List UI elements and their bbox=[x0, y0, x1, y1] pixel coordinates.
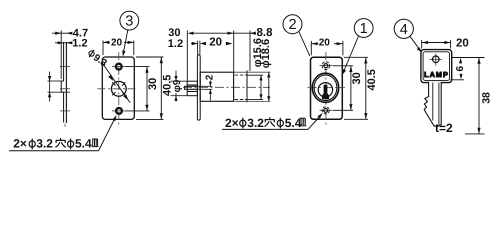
plate section back face line bbox=[65, 42, 67, 123]
phi symbol label2 b bbox=[277, 118, 283, 129]
svg-text:φ18.6: φ18.6 bbox=[260, 39, 272, 68]
balloon 2 bbox=[283, 15, 302, 34]
phi9 dimension left of flange bbox=[171, 71, 188, 102]
flange plate edge-on bbox=[197, 55, 200, 120]
svg-text:1.2: 1.2 bbox=[168, 38, 183, 50]
svg-text:30: 30 bbox=[351, 72, 363, 84]
dimension 20 above front plate bbox=[311, 41, 343, 55]
svg-text:φ9: φ9 bbox=[172, 79, 183, 92]
center ticks on plate section bbox=[60, 67, 70, 111]
keyway bbox=[322, 85, 329, 100]
dimension 20 above view 3 bbox=[103, 41, 134, 56]
vertical centerline bbox=[325, 52, 327, 125]
horizontal centerline bbox=[183, 86, 270, 88]
svg-text:1: 1 bbox=[360, 21, 368, 37]
svg-text:20: 20 bbox=[319, 37, 331, 48]
horizontal centerline of big hole bbox=[98, 88, 139, 90]
svg-text:2×: 2× bbox=[225, 116, 239, 130]
cam bar edge-on bbox=[185, 86, 198, 89]
lock body rectangle bbox=[200, 72, 233, 101]
phi symbol label2 a bbox=[240, 118, 246, 129]
bottom countersunk hole bbox=[112, 108, 126, 114]
cam latch boss on flange front bbox=[187, 81, 197, 96]
bottom hole (back side) bbox=[320, 107, 333, 114]
svg-text:1.2: 1.2 bbox=[72, 38, 87, 50]
kanji sara label2 bbox=[299, 118, 306, 126]
svg-text:4: 4 bbox=[400, 22, 408, 38]
svg-text:20: 20 bbox=[111, 37, 123, 48]
label text 2 bbox=[225, 116, 302, 130]
big hole phi9.3 circle with ticks bbox=[111, 81, 126, 96]
kanji ana (hole) bbox=[55, 138, 65, 147]
dimension 20 above key bbox=[422, 40, 451, 49]
balloon 1 leader with arrow bbox=[342, 36, 359, 75]
balloon 3 bbox=[120, 11, 139, 30]
phi9.3 text bbox=[86, 48, 110, 69]
hub height dimension (left small dim) bbox=[48, 72, 71, 102]
svg-text:2: 2 bbox=[205, 74, 216, 80]
svg-text:2: 2 bbox=[288, 17, 296, 33]
svg-text:40.5: 40.5 bbox=[366, 69, 378, 90]
top hole (back side) bbox=[320, 62, 333, 70]
dimension 1.2 bbox=[55, 41, 72, 44]
key head inner outline bbox=[423, 52, 449, 81]
svg-text:3.2: 3.2 bbox=[247, 116, 264, 130]
hub boss on plate section bbox=[61, 81, 63, 92]
phi symbol 2 bbox=[68, 139, 74, 150]
dimension 6 (key) bbox=[451, 58, 471, 80]
svg-text:3: 3 bbox=[125, 14, 133, 30]
top countersunk hole bbox=[112, 64, 126, 70]
dimension 30 top (view 2) bbox=[187, 31, 233, 82]
dimension 30 right of view 3 bbox=[126, 67, 150, 111]
label 1 underline and leader bbox=[9, 115, 116, 151]
label text 1: 2x phi3.2 hole phi5.4 countersink bbox=[13, 137, 92, 151]
lock cylinder circles bbox=[312, 73, 338, 102]
hidden lines phi15.6 bbox=[235, 74, 249, 76]
balloon 3 leader bbox=[122, 30, 128, 57]
key blade bbox=[424, 82, 441, 126]
dimension 8.8 top (view 2) bbox=[234, 31, 256, 72]
svg-text:8.8: 8.8 bbox=[257, 27, 274, 39]
dimension 30 right of front plate bbox=[333, 66, 353, 111]
vertical centerline of plate bbox=[118, 52, 120, 126]
blade groove lines bbox=[432, 83, 434, 121]
svg-text:30: 30 bbox=[147, 78, 159, 90]
phi9.3 leader with arrows bbox=[102, 62, 131, 103]
svg-text:2×: 2× bbox=[13, 137, 27, 151]
dimension 4.7 bbox=[52, 31, 72, 80]
plate section front face line bbox=[63, 42, 65, 81]
dimension 38 (key) bbox=[452, 58, 485, 134]
balloon 4 bbox=[394, 19, 413, 38]
svg-text:LAMP: LAMP bbox=[424, 70, 449, 79]
balloon 1 bbox=[354, 19, 373, 38]
phi15.6 dimension bbox=[247, 75, 263, 99]
svg-text:3.2: 3.2 bbox=[36, 137, 53, 151]
svg-text:20: 20 bbox=[209, 37, 222, 49]
balloon 2 leader bbox=[299, 31, 310, 56]
view 3 front plate outline bbox=[102, 57, 134, 119]
kanji ana (hole) label2 bbox=[265, 117, 275, 126]
svg-text:5.4: 5.4 bbox=[285, 116, 302, 130]
dimension 1.2 and 20 (view 2 second row) bbox=[191, 41, 233, 55]
dimension 40.5 right of view 3 bbox=[136, 57, 164, 119]
svg-text:38: 38 bbox=[480, 92, 492, 104]
front plate outline bbox=[311, 57, 343, 119]
svg-text:6: 6 bbox=[455, 66, 466, 72]
svg-text:t=2: t=2 bbox=[435, 121, 453, 135]
svg-text:20: 20 bbox=[456, 37, 469, 49]
kanji sara (dish/countersink) bbox=[92, 139, 99, 147]
rear stub top and bottom edges bbox=[234, 71, 247, 73]
phi18.6 dimension bbox=[236, 72, 271, 101]
svg-text:5.4: 5.4 bbox=[75, 137, 92, 151]
balloon 4 leader bbox=[410, 36, 422, 53]
cam bar thickness 2 dimension bbox=[190, 81, 212, 101]
key head outer outline bbox=[421, 50, 452, 83]
rear stub end line bbox=[246, 71, 248, 103]
key hole bbox=[430, 54, 443, 66]
phi symbol 1 bbox=[29, 139, 35, 150]
horizontal centerline of cylinder bbox=[308, 87, 346, 89]
dimension 40.5 right of front plate bbox=[344, 57, 368, 119]
label 2 underline and leader bbox=[222, 113, 323, 129]
